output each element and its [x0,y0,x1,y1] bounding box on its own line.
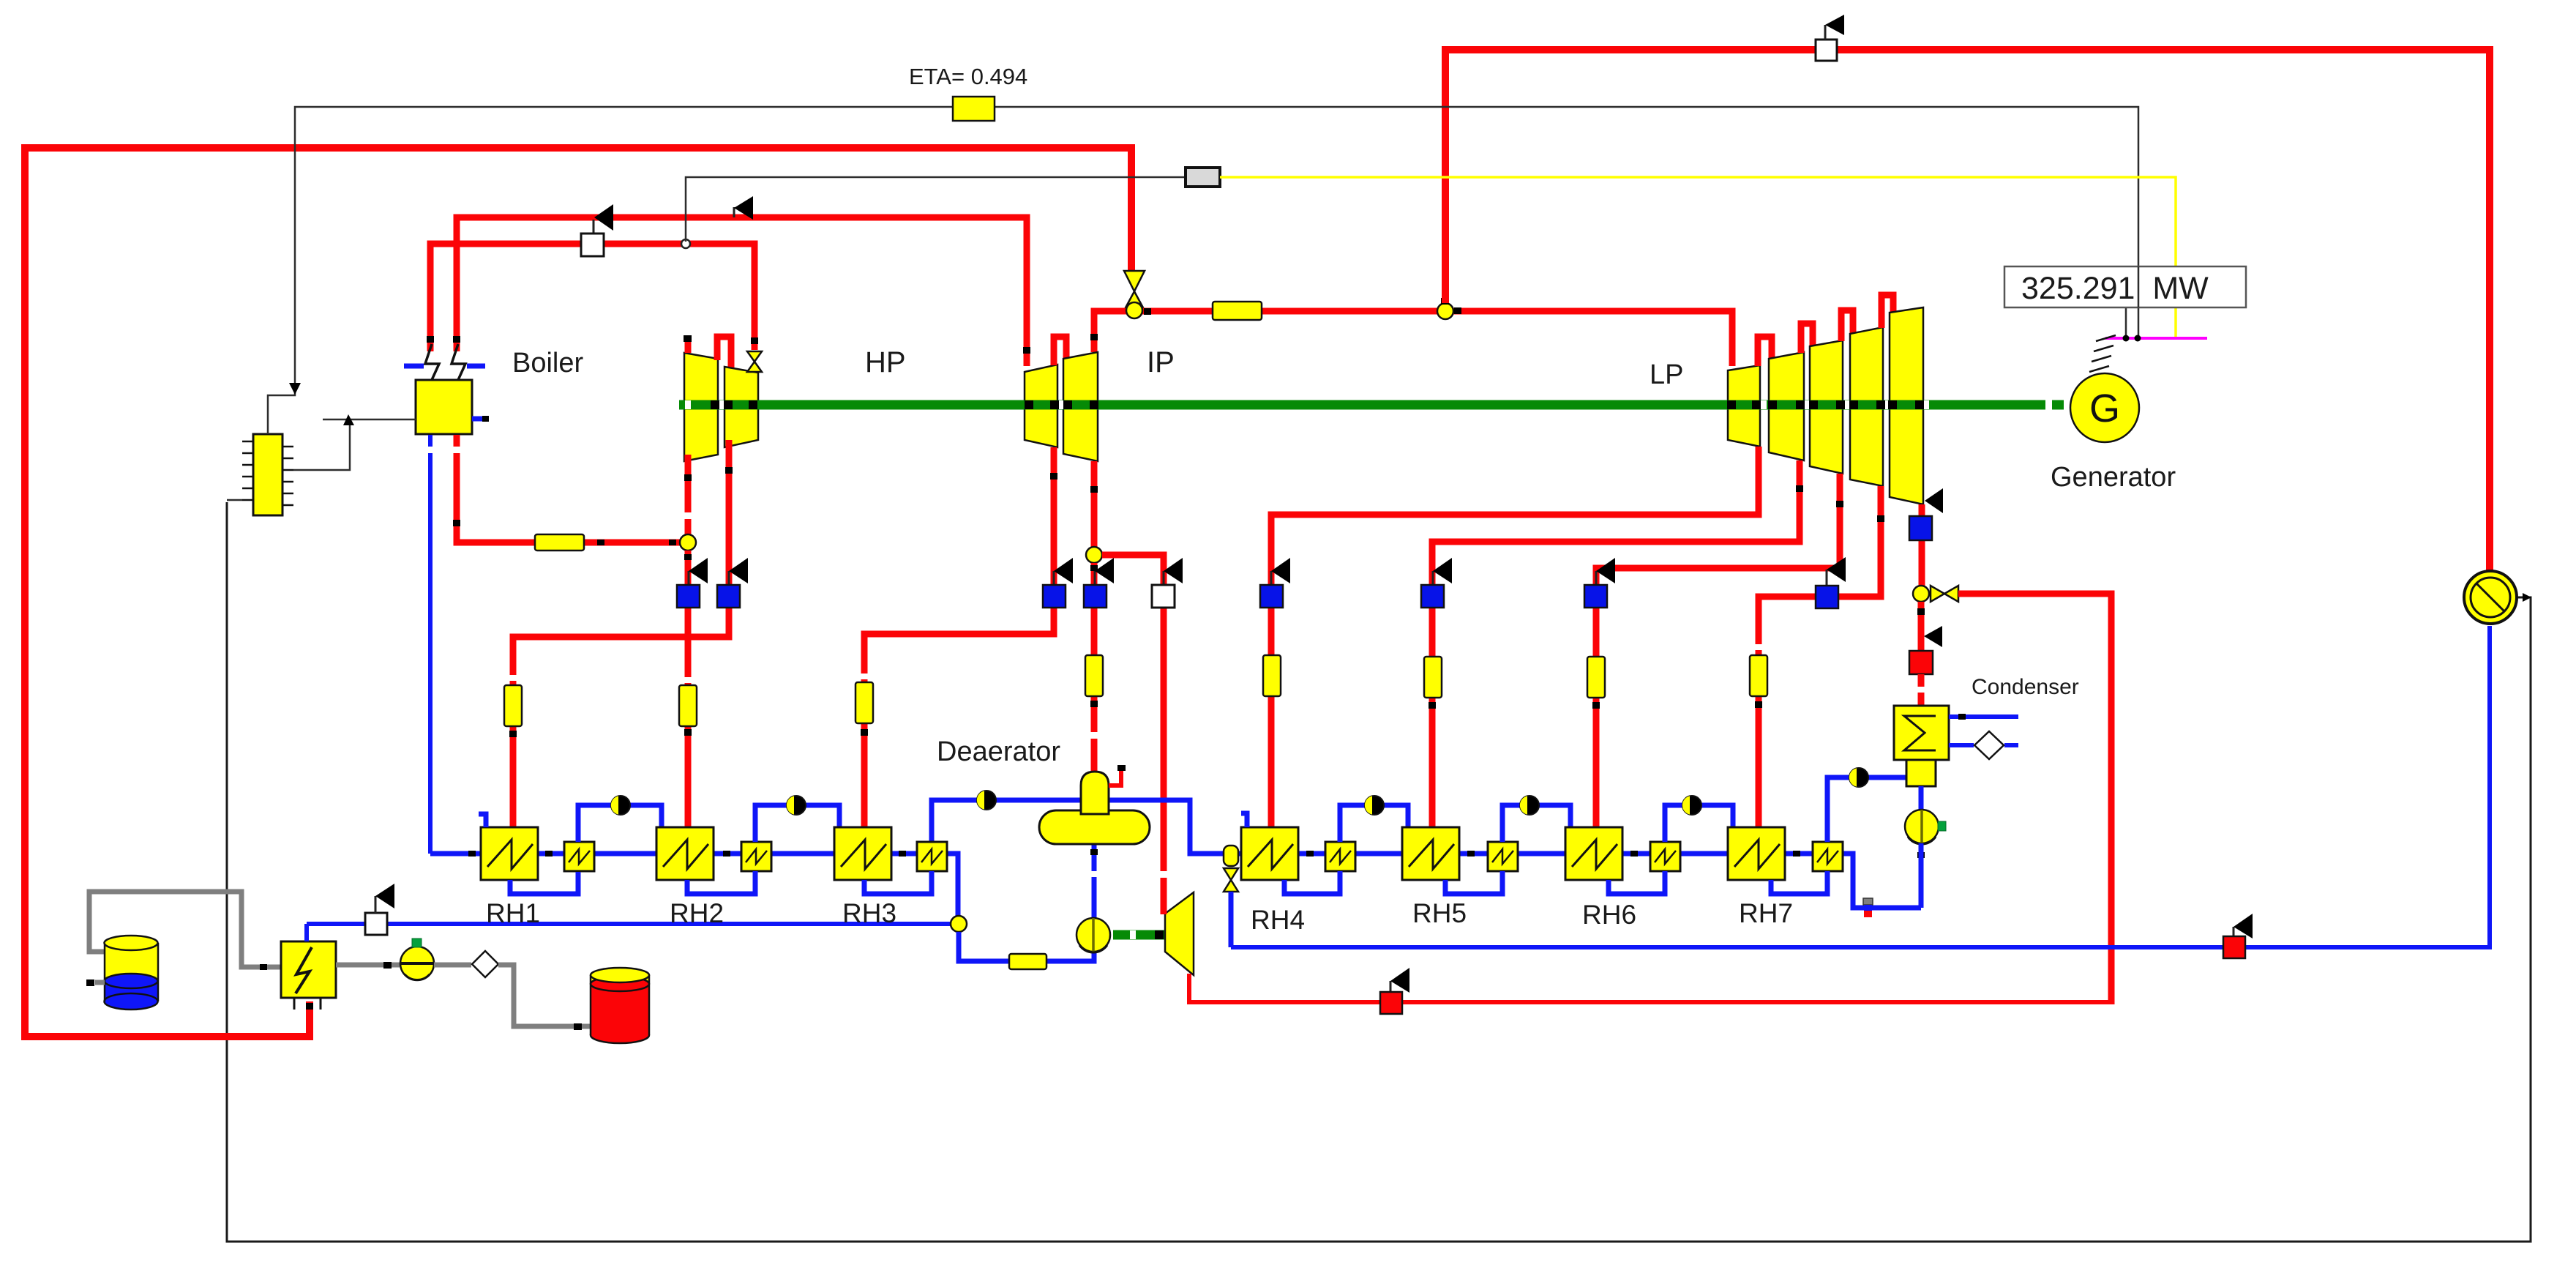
wire: LP1 extraction to RH4 [1268,447,1759,828]
deaerator vessel [1039,772,1150,844]
wire: RH7 drain U-loop [1771,871,1827,894]
water treatment unit (lightning box) [281,941,336,1010]
wire: extraction to RH2 [684,551,692,828]
drain cooler RH1 [564,842,594,871]
node: HP exhaust splitter [680,534,696,551]
wire: boiler blue stub right [472,416,489,422]
wire: HP inter-section elbow [717,337,731,367]
flow element: yellow pill on cold reheat line [535,534,584,551]
wire: RH7 cascade to condenser hotwell [1827,777,1906,842]
wire: drain cascade RH3 cooler to deaerator/RH4 [932,800,1224,854]
svg-text:Deaerator: Deaerator [937,736,1060,767]
check valve RH5-RH6 [1520,796,1539,815]
wire: LP staple 1-2 [1758,337,1772,366]
wire: preheater bottom connection to boundary [227,499,242,501]
flow element: pill on RH1 extraction [504,685,522,726]
node: signal tap circle on main steam line [681,239,690,248]
svg-text:RH2: RH2 [670,898,724,928]
boiler [416,380,472,434]
wire: pump to strainer [434,963,471,968]
node: condensate mixing point [951,916,967,932]
flow element: pill on RH2 extraction [679,685,697,726]
turbine IP section 2 [1063,352,1098,461]
wire: deaerator outlet to feed pump [1090,843,1098,918]
marker: sample point on condensate line [1863,898,1873,917]
wire: HP section2 extraction to RH1 [509,440,733,828]
turbine LP section 2 [1769,352,1804,460]
svg-text:Boiler: Boiler [512,348,583,378]
valve: HP inlet stop valve [747,351,762,372]
wire: steam to BFP turbine [1102,555,1167,914]
wire: cold reheat from boiler bottom to HP exhaust node [453,435,680,545]
svg-text:RH4: RH4 [1251,905,1305,935]
pump: boiler feed pump [1077,918,1110,952]
display box ETA (yellow) on signal line [953,97,995,121]
svg-text:IP: IP [1147,346,1175,378]
svg-text:RH5: RH5 [1412,898,1467,928]
heater RH7 [1728,827,1785,880]
wire: big red spray-water loop (left border + top line to IP valve) [25,148,1131,1037]
check valve RH2-RH3 [787,796,806,815]
wire: black efficiency signal line (boiler area to generator) [295,107,2138,392]
display box: 325.291 MW [2004,266,2246,307]
heater RH2 [656,827,714,880]
wire: hotwell to condensate pump [1919,786,1924,810]
flow element: pill on RH3 extraction [855,682,873,723]
flow element: pill on RH5 extraction [1424,657,1442,698]
svg-text:RH7: RH7 [1739,898,1793,928]
flow element: pill on RH7 extraction [1750,655,1767,696]
drain cooler RH2 [741,842,771,871]
wire: yellow signal line from transducer to generator bus [1220,177,2176,338]
wire: makeup water line to mixing node [307,922,951,926]
svg-text:RH3: RH3 [842,898,896,928]
check valve RH7-condenser [1849,768,1868,787]
wire: extraction riser to top line and across to cooler (y=68) [1445,50,2490,572]
wire: strainer to oil tank [498,965,591,1030]
valve V1 (spray control valve into IP line) [1124,271,1145,310]
svg-text:RH1: RH1 [486,898,540,928]
wire: RH6 drain U-loop [1609,871,1665,894]
flag + white square marker on top line [1816,15,1844,61]
heater RH1 [479,814,538,880]
flow element: pill on RH6 extraction [1587,657,1605,698]
wire: IP section1 extraction to RH3 [861,447,1057,828]
heater RH3 [834,827,891,880]
drain cooler RH7 [1813,842,1843,871]
wire: condensate main line through LP heaters [1238,851,1925,908]
turbine HP section 2 [724,367,758,447]
heater RH4 [1241,813,1298,880]
wire: LP2 extraction to RH5 [1429,460,1803,828]
wire: steam dump into condenser [1909,602,1942,705]
flag + blue box on RH6 extraction [1584,558,1615,608]
svg-text:RH6: RH6 [1582,900,1636,930]
flow element: yellow pill on IP crossover [1213,302,1262,320]
wire: RH1 cascade to RH2 [578,805,662,842]
wire: black system boundary (left vertical from air preheater down, bottom, right up to cooler) [227,502,2531,1242]
wire: RH4 cascade to RH5 [1340,805,1408,842]
svg-text:Condenser: Condenser [1972,675,2079,699]
turbine LP section 5 [1890,307,1923,504]
wire: BFPT exhaust return line to condenser node [1189,594,2111,1004]
wire: gray makeup/fuel piping from tank to treatment unit [89,892,281,970]
wire: RH3 drain U-loop [864,871,932,894]
wire: main steam (boiler top left riser to HP valve) [427,244,758,351]
wire: IP inter-section elbow [1054,337,1066,365]
wire: treated water riser to makeup line [304,924,309,941]
flow element: pill on pump discharge [1009,954,1046,969]
wire: LP staple 2-3 [1801,324,1813,353]
wire: air duct from signal arrow to preheater [268,383,301,434]
wire: HP exhaust to reheat node [684,455,692,536]
wire: RH2 cascade to RH3 [755,805,839,842]
logic break symbols above boiler [404,344,485,380]
wire: RH5 cascade to RH6 [1502,805,1570,842]
node: exhaust splitter above condenser [1913,586,1929,602]
wire: feedwater main line through HP heaters [430,851,958,917]
wire: feed pump discharge loop [959,932,1009,961]
check valve on deaerator drain line [977,791,996,810]
flag + red box on cooling return [2223,914,2253,958]
shaft (green) [679,400,2064,409]
check valve RH1-RH2 [611,796,630,815]
wire: cooling water stub lower with strainer [1949,731,2018,759]
flag + blue box on RH4 extraction [1260,558,1290,608]
flag + blue box on RH7 extraction [1816,557,1846,608]
heater RH5 [1402,827,1459,880]
tank: fuel oil tank (red) [591,968,649,1043]
tank: makeup water tank [105,936,159,1010]
turbine IP section 1 [1025,365,1057,447]
drain cooler RH6 [1650,842,1680,871]
wire: LP3 extraction to RH6 [1592,474,1843,828]
wire: black signal from main steam tap to transducer [686,177,1186,242]
flow element: pill on RH4 extraction [1263,655,1281,696]
wire: cooling water return line (long blue to cooler circle) [1231,626,2490,947]
wire: RH4 drain U-loop [1284,871,1340,894]
node: IP exhaust splitter [1086,547,1102,563]
flag + red box on BFPT exhaust line [1380,968,1409,1014]
flag + blue box on RH1 extraction [717,558,748,608]
check valve RH6-RH7 [1682,796,1701,815]
wire: hot reheat steam (boiler top right riser to IP inlet) [453,217,1030,366]
svg-text:LP: LP [1650,359,1683,390]
wire: magenta generator terminal bus [2105,337,2207,340]
flag + white box on makeup line [365,884,394,935]
turbine LP section 3 [1810,340,1843,474]
valve: bowtie on BFPT exhaust return [1931,586,1958,602]
drain cooler RH3 [917,842,947,871]
valve circle on IP line [1126,302,1142,318]
svg-text:HP: HP [865,346,906,378]
node: junction to district heating riser [1437,303,1453,319]
wire: gray line treatment to pump [336,962,400,969]
svg-text:ETA= 0.494: ETA= 0.494 [909,64,1027,89]
shaft: aux turbine to feed pump [1113,930,1164,939]
flag marker on hot reheat line [734,196,753,220]
wire: RH2 drain U-loop [687,871,755,894]
wire: deaerator vent stub [1109,765,1126,786]
wire: RH6 cascade to RH7 [1665,805,1733,842]
svg-text:G: G [2089,387,2120,430]
wire: feedwater into boiler (blue riser from RH1 main line) [427,435,434,854]
wire: IP exhaust down to splitter [1090,461,1098,548]
wire: RH5 drain U-loop [1445,871,1502,894]
condenser [1894,706,1949,786]
wire: flue gas / fuel line preheater to boiler [293,414,416,470]
wire: LP staple 3-4 [1841,310,1853,341]
strainer diamond [472,951,498,977]
valve: condensate control valve at RH4 inlet [1224,846,1238,947]
air preheater (finned) [242,434,293,515]
svg-text:Generator: Generator [2051,462,2176,493]
generator G [2070,335,2139,442]
transducer box (gray) [1186,168,1220,187]
wire: LP4 extraction to RH7 [1755,486,1884,828]
drain cooler RH4 [1325,842,1355,871]
flag + white square marker between steam lines [581,204,613,256]
turbine LP section 4 [1850,327,1883,486]
wire: LP staple 4-5 [1882,295,1893,328]
flag + white box on BFPT steam [1152,558,1183,608]
wire: IP exhaust crossover line to LP (y=425) [1090,308,1732,366]
flag + blue box on RH3 extraction [1043,558,1073,608]
flag + blue box on RH2 extraction [677,558,708,608]
turbine HP section 1 [684,335,718,461]
heat sink: cooling circle [2464,571,2531,624]
wire: condensate pump down to line [1919,843,1924,908]
wire: steam to deaerator [1090,563,1098,773]
wire: tank drain stub [86,979,105,986]
wire: RH1 drain U-loop [510,872,578,894]
turbine LP section 1 [1728,365,1760,447]
pump: makeup pump [400,939,434,980]
wire: black stub from MW display to bus [2125,307,2127,338]
wire: cooling water stub upper [1949,714,2018,720]
wire: LP5 exhaust down [1919,504,1925,586]
flow element: pill on deaerator steam [1085,655,1103,696]
wire: red drain from treatment unit [306,1003,313,1010]
turbine: boiler feed pump drive turbine [1165,892,1194,975]
heater RH6 [1565,827,1622,880]
pump: condensate pump [1905,810,1946,844]
svg-text:325.291 MW: 325.291 MW [2021,271,2209,306]
flag + blue box on deaerator steam [1084,558,1114,608]
check valve RH4-RH5 [1365,796,1384,815]
flag + blue box on LP exhaust [1909,488,1943,540]
drain cooler RH5 [1488,842,1518,871]
flag + blue box on RH5 extraction [1421,558,1452,608]
